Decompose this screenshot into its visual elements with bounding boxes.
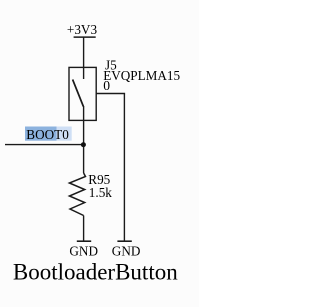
svg-text:GND: GND [112,244,141,259]
switch J5 body box [69,67,96,120]
net label BOOT0 [26,127,69,142]
switch pin number 0 [103,78,110,93]
resistor R95 zigzag [69,173,85,216]
ground right bar [117,240,131,242]
svg-text:0: 0 [103,78,110,93]
wire BOOT0 stub (horizontal to junction) [5,144,84,146]
wire switch bottom pin down through node to resistor [83,106,85,173]
wire from switch right pin down to ground (vertical) [123,94,125,242]
resistor R95 designator label [88,172,110,187]
svg-text:BOOT0: BOOT0 [26,127,69,142]
wire from +3V3 to switch top pin [83,37,85,79]
wire from switch right pin (horizontal) [96,93,125,95]
svg-text:1.5k: 1.5k [89,185,112,200]
switch J5 blade (open contact diagonal) [73,80,84,107]
ground left GND label [69,244,98,259]
title BootloaderButton [13,260,178,285]
ground left bar [77,240,91,242]
power +3V3 bar [74,36,96,38]
node BOOT0 highlight (selection) [25,127,72,141]
svg-text:EVQPLMA15: EVQPLMA15 [103,68,180,83]
wire resistor bottom to left ground [83,216,85,242]
power +3V3 label [67,22,98,37]
switch J5 part value EVQPLMA15 [103,68,180,83]
resistor R95 value 1.5k [89,185,112,200]
svg-text:+3V3: +3V3 [67,22,98,37]
ground right GND label [112,244,141,259]
junction dot at BOOT0 node [81,142,86,147]
switch J5 designator label [105,58,117,73]
svg-text:GND: GND [69,244,98,259]
svg-text:BootloaderButton: BootloaderButton [13,260,178,285]
